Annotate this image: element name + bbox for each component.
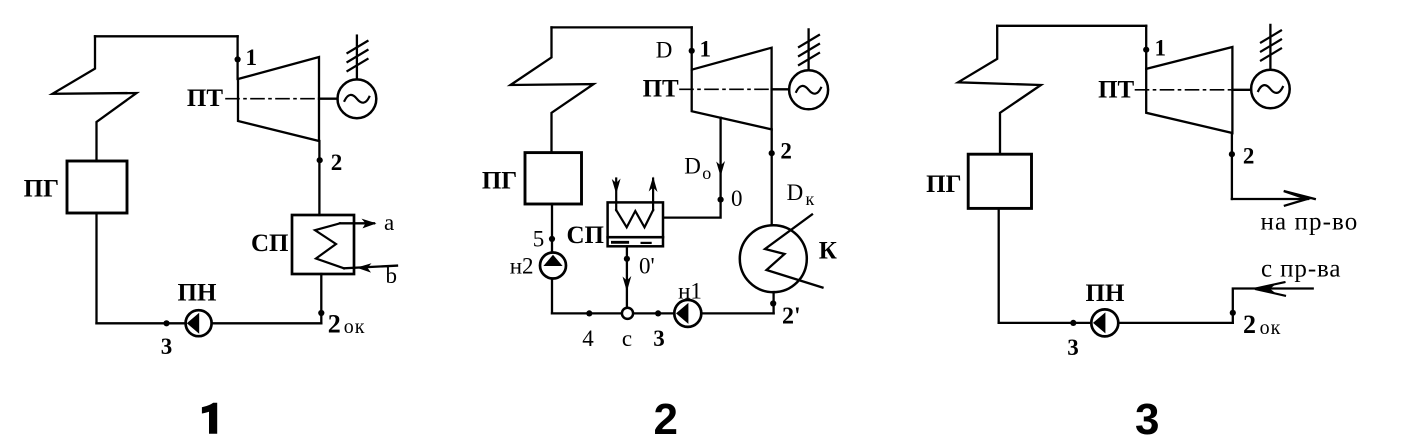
svg-text:ПТ: ПТ [1098,77,1134,104]
svg-text:с пр-ва: с пр-ва [1261,256,1341,283]
mixing node c (scheme 2) [622,308,633,319]
wire: turbine exhaust down (scheme 3) [1231,133,1233,199]
wire: bottom condensate line (scheme 2) [552,312,774,314]
arrow a (scheme 1) [340,222,374,224]
arrow head Dо down (scheme 2) [716,161,725,177]
wire: shaft to generator (scheme 2) [772,88,790,90]
svg-text:о: о [702,163,711,183]
heater drain line 0' (scheme 2) [626,246,628,307]
node 1 (scheme 3) [1143,47,1149,53]
svg-text:4: 4 [582,326,594,351]
wire: bottom condensate line (scheme 3) [999,322,1233,324]
shaft centerline dash-dot (scheme 1) [226,98,319,100]
turbine ПТ (scheme 1) [238,57,319,141]
svg-text:5: 5 [533,227,545,252]
svg-text:СП: СП [251,230,289,257]
heater W coil (scheme 2) [616,210,653,227]
wire: feedwater line with pump (scheme 2) [551,204,553,313]
wire: heater drain vertical (scheme 1) [320,274,322,323]
feed pump ПН (scheme 3) [1091,309,1118,336]
wire: shaft to generator (scheme 3) [1232,89,1251,91]
generator circle (scheme 1) [338,79,377,118]
condensate pump н1 (scheme 2) [674,300,701,327]
network heater СП box (scheme 1) [292,215,354,274]
feed pump ПН (scheme 1) [186,310,212,336]
node 3 (scheme 1) [163,320,169,326]
shaft centerline dash-dot (scheme 3) [1136,89,1233,91]
boiler superheater zigzag (scheme 1) [53,36,137,161]
heater water box strip (scheme 2) [608,237,663,246]
steam generator ПГ box (scheme 1) [67,161,127,213]
svg-text:2: 2 [1243,144,1255,169]
svg-text:ПГ: ПГ [24,176,59,203]
node 3 (scheme 2) [655,310,661,316]
wire: feedwater downcomer (scheme 1) [95,213,97,323]
svg-text:ПН: ПН [1086,280,1125,307]
node 5 (scheme 2) [549,236,555,242]
svg-text:0': 0' [639,254,655,279]
wire: bottom condensate line (scheme 1) [97,322,322,324]
generator ground hatch (scheme 2) [799,35,819,65]
generator lead wire (scheme 3) [1269,25,1271,70]
node 2 (scheme 1) [317,157,323,163]
generator lead wire (scheme 2) [807,29,809,70]
generator circle (scheme 2) [789,70,828,109]
heater СП box (scheme 2) [608,202,663,237]
condenser К circle (scheme 2) [740,225,807,292]
wire: turbine inlet vertical (scheme 3) [1145,26,1147,69]
svg-text:ПГ: ПГ [482,167,517,194]
svg-text:2: 2 [328,309,341,338]
boiler superheater zigzag (scheme 2) [511,27,594,152]
svg-text:на пр-во: на пр-во [1261,209,1359,236]
turbine ПТ (scheme 3) [1146,47,1232,133]
svg-text:ПН: ПН [178,279,217,306]
steam generator ПГ box (scheme 2) [525,153,582,204]
wire: main steam header (scheme 3) [997,25,1146,27]
heater vent arrow up (scheme 2) [652,179,654,211]
svg-text:3: 3 [1067,335,1079,360]
svg-text:3: 3 [653,326,665,351]
shaft centerline dash-dot (scheme 2) [680,88,772,90]
svg-text:СП: СП [567,222,605,249]
svg-text:2: 2 [331,150,343,175]
feed pump н2 (scheme 2) [540,253,566,279]
wire: turbine inlet vertical (scheme 2) [691,27,693,69]
wire: condenser drain corner (scheme 2) [772,292,774,313]
heater steam inlet arrow (scheme 2) [615,179,617,211]
svg-text:н1: н1 [678,279,702,304]
condenser coil zigzag (scheme 2) [765,215,823,288]
wire: turbine exhaust to condenser (scheme 2) [771,129,773,225]
heater coil (scheme 1) [315,223,344,268]
svg-text:a: a [384,210,394,235]
wire: shaft to generator (scheme 1) [319,98,338,100]
svg-text:ок: ок [344,316,366,338]
node 4 (scheme 2) [586,310,592,316]
svg-text:ПТ: ПТ [187,85,223,112]
wire: extraction to heater (scheme 2) [663,200,720,218]
svg-text:К: К [819,238,837,265]
generator lead wire (scheme 1) [356,36,358,80]
svg-text:ПГ: ПГ [926,171,961,198]
svg-text:D: D [656,38,673,63]
node 1 (scheme 1) [235,56,241,62]
svg-text:D: D [787,180,804,205]
svg-text:н2: н2 [510,254,534,279]
wire: main steam header (scheme 1) [95,35,238,37]
generator circle (scheme 3) [1251,70,1290,109]
steam generator ПГ box (scheme 3) [968,154,1031,208]
svg-text:2': 2' [782,304,801,330]
svg-text:1: 1 [1155,36,1167,61]
svg-text:3: 3 [161,334,173,359]
arrow b (scheme 1) [344,266,397,269]
turbine ПТ (scheme 2) [692,48,772,130]
svg-text:1: 1 [700,37,712,62]
svg-text:1: 1 [246,45,258,70]
big label 1 [202,403,217,434]
node 3 (scheme 3) [1070,320,1076,326]
svg-text:D: D [684,154,701,179]
wire: feedwater downcomer (scheme 3) [998,208,1000,323]
svg-text:ок: ок [1260,317,1282,339]
node 2' (scheme 2) [770,300,776,306]
svg-text:c: c [622,326,632,351]
node 2ок (scheme 3) [1230,310,1236,316]
svg-text:b: b [386,263,398,288]
boiler superheater zigzag (scheme 3) [958,26,1041,154]
node 0' dot (scheme 2) [624,256,630,262]
svg-text:2: 2 [654,395,678,444]
svg-text:2: 2 [780,139,792,164]
arrow: from production (scheme 3) [1233,289,1313,323]
wire: turbine exhaust to heater (scheme 1) [318,141,320,215]
wire: turbine inlet vertical (scheme 1) [236,36,238,79]
wire: main steam header (scheme 2) [552,26,692,28]
svg-text:2: 2 [1243,310,1256,339]
node 0 (scheme 2) [718,197,724,203]
node 2 (scheme 3) [1229,151,1235,157]
svg-text:0: 0 [731,186,743,211]
node D-1 (scheme 2) [689,48,695,54]
generator ground hatch (scheme 1) [348,41,368,71]
water level dashes (scheme 2) [612,241,627,244]
generator ground hatch (scheme 3) [1261,31,1281,61]
extraction line Dо (scheme 2) [719,118,721,200]
node 2ок (scheme 1) [318,310,324,316]
arrow head 0' down (scheme 2) [623,276,632,292]
svg-text:ПТ: ПТ [643,76,679,103]
node 2 (scheme 2) [769,150,775,156]
arrow: to production (scheme 3) [1232,198,1308,200]
svg-text:3: 3 [1135,395,1159,444]
svg-text:к: к [806,189,815,209]
